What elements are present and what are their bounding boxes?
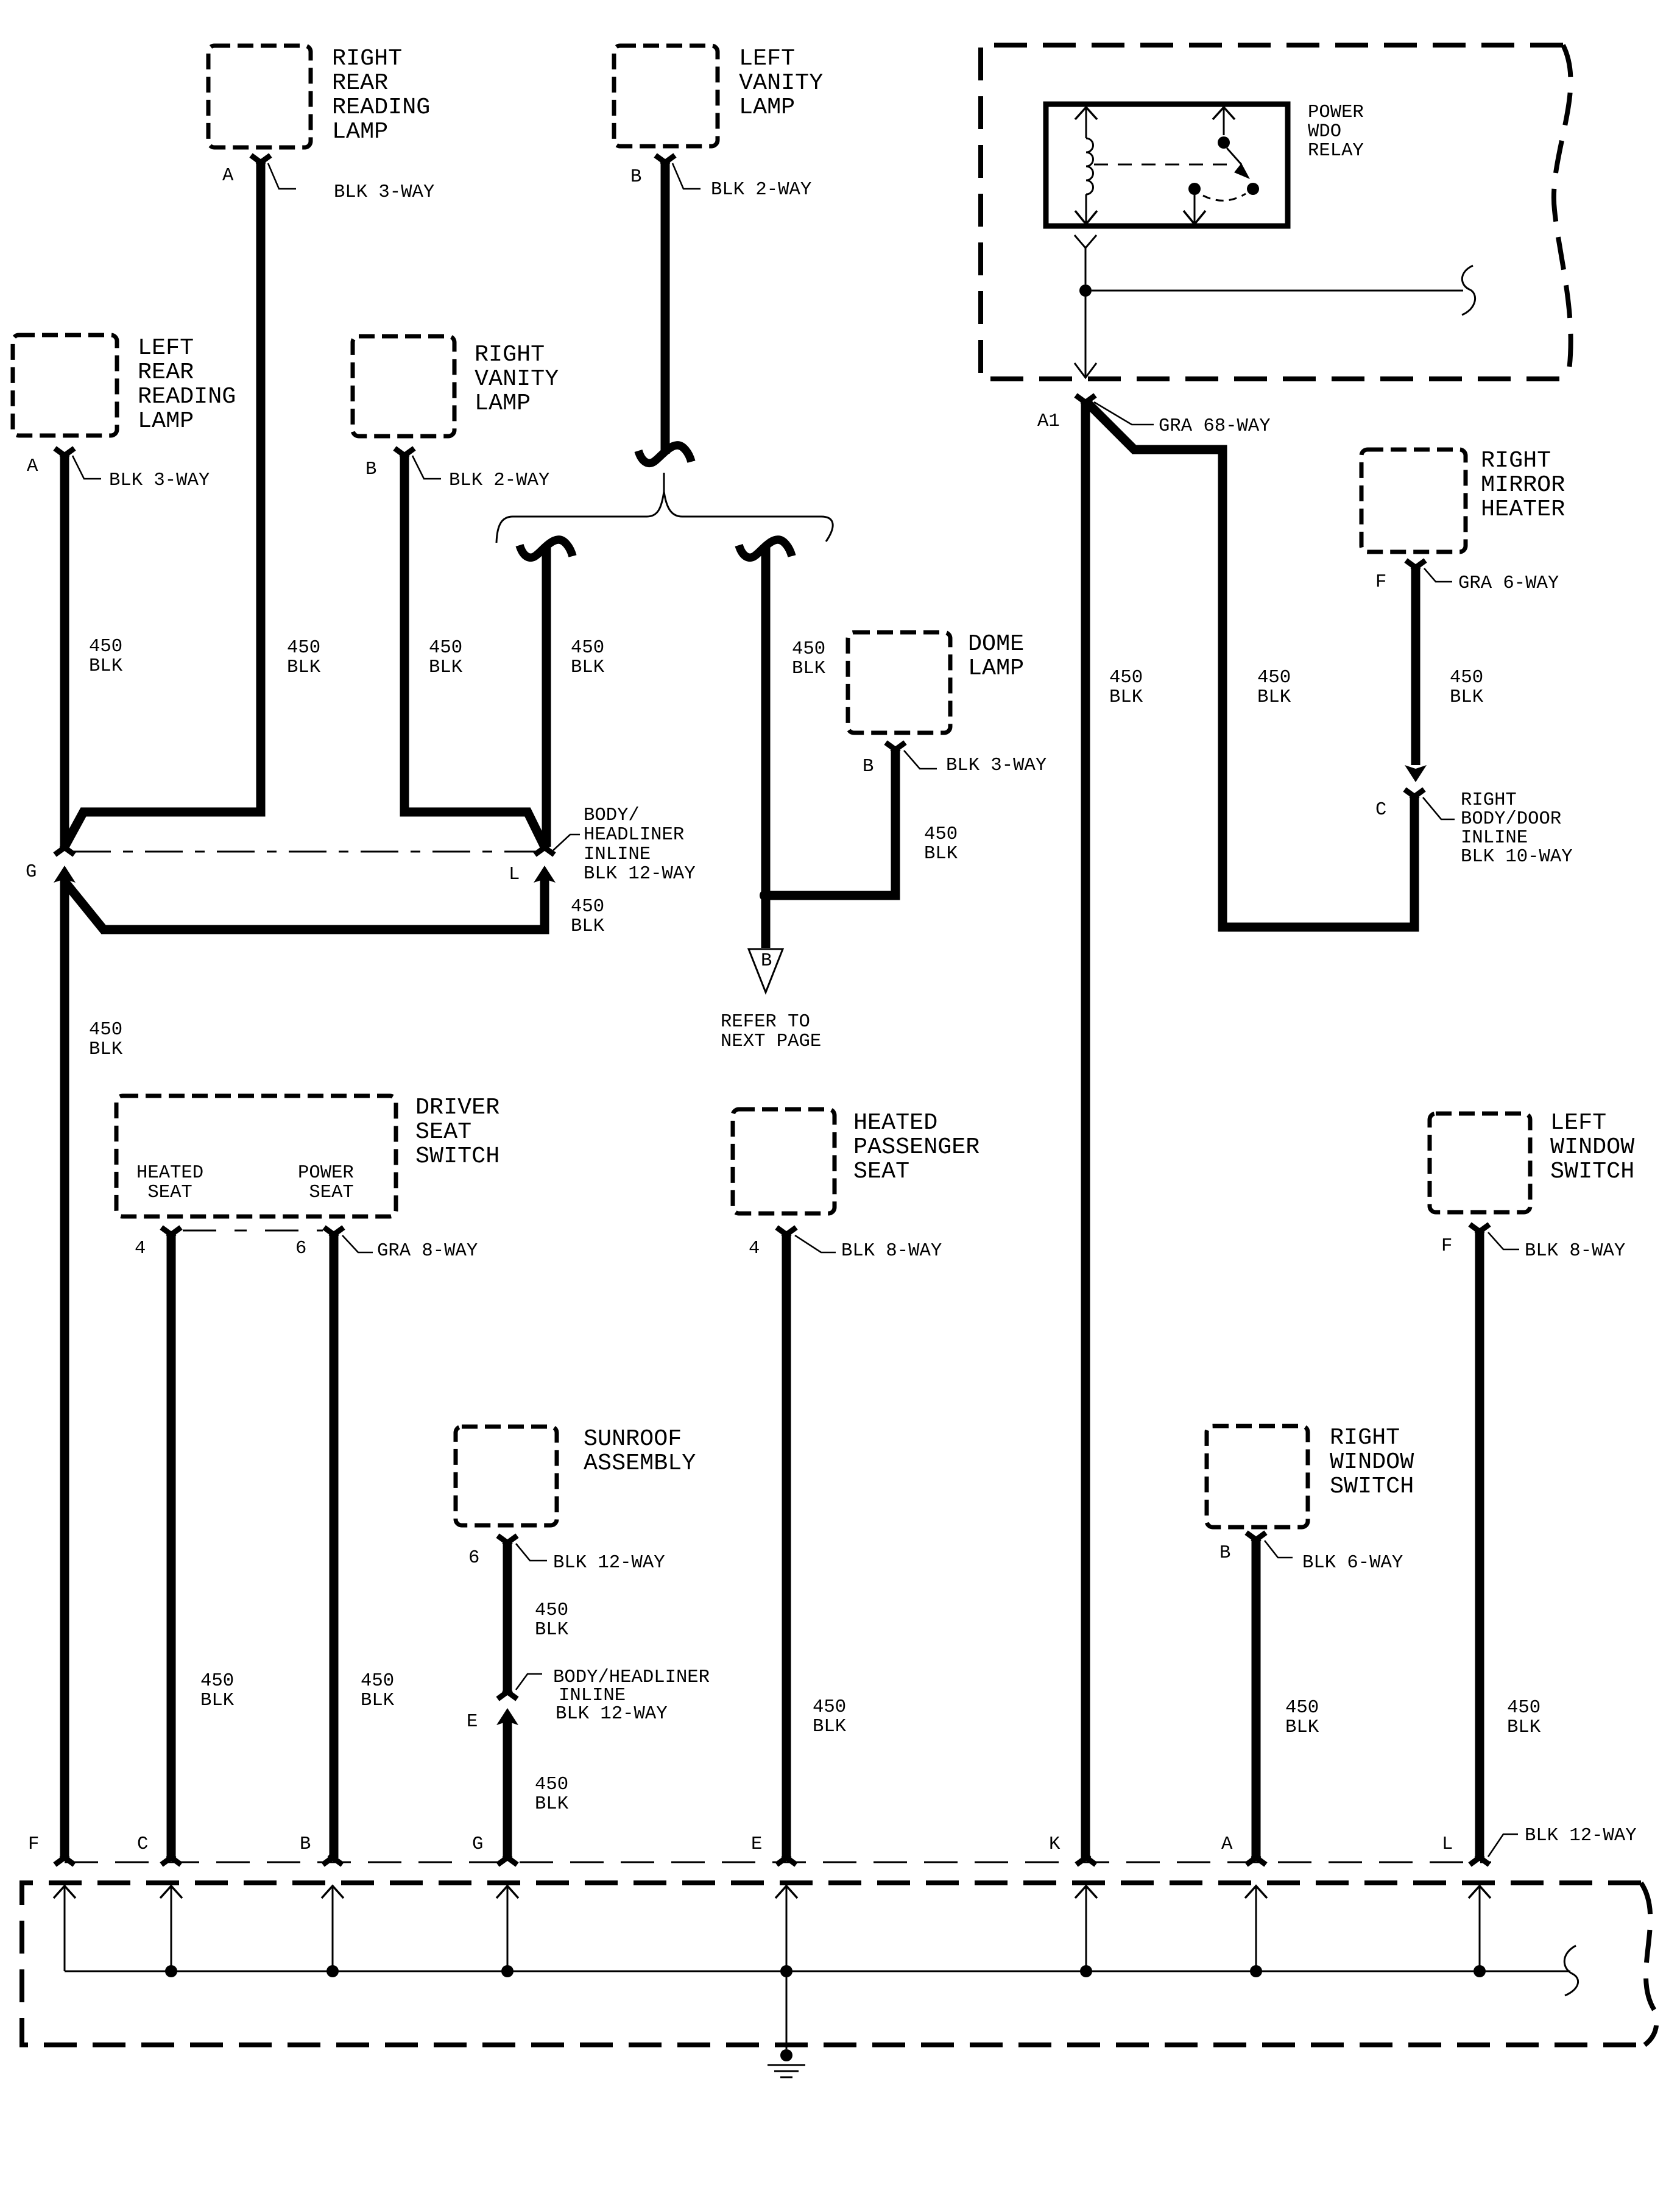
node ground bus junction at x=281 [165,1965,177,1977]
label POWER WDO RELAY [1308,102,1364,161]
svg-text:VANITY: VANITY [739,69,823,96]
wire 450 BLK from brace right branch to page reference B [761,547,771,948]
ground connector pin G mark [498,1855,517,1865]
svg-text:RIGHT: RIGHT [1461,790,1517,811]
svg-text:450: 450 [89,1020,122,1040]
svg-text:BLK: BLK [1450,687,1484,708]
wire 450 BLK from right vanity lamp to inline L [404,454,545,847]
wire 450 BLK from inline E to ground connector pin G [503,1719,512,1858]
pin letter B (dome lamp) [863,757,874,777]
inline connector G-L dashed link [73,851,536,853]
svg-text:INLINE: INLINE [1461,828,1528,849]
svg-text:BLK: BLK [361,1690,395,1711]
svg-text:6: 6 [468,1548,479,1569]
module POWER WDO RELAY dashed boundary [981,45,1571,379]
svg-text:450: 450 [535,1774,568,1795]
svg-text:BLK 12-WAY: BLK 12-WAY [553,1553,665,1573]
driver seat switch pins dashed link [183,1230,323,1232]
svg-text:DOME: DOME [968,630,1024,657]
svg-text:WINDOW: WINDOW [1550,1134,1635,1160]
label BLK 3-WAY connector (right rear reading lamp) [334,182,434,203]
svg-text:POWER: POWER [1308,102,1364,123]
label REFER TO NEXT PAGE [721,1012,821,1052]
svg-text:HEATED: HEATED [136,1163,203,1184]
pin F of LEFT WINDOW SWITCH [1470,1224,1489,1234]
svg-text:E: E [751,1834,762,1855]
pin A of RIGHT REAR READING LAMP [251,155,270,165]
svg-text:PASSENGER: PASSENGER [853,1134,979,1160]
ground drop lead [786,1971,788,2049]
leader BLK 2-WAY (right vanity lamp) [412,456,441,479]
pin 4 of DRIVER SEAT SWITCH [161,1227,181,1237]
ground bus wire [65,1971,1570,1972]
svg-text:BLK 3-WAY: BLK 3-WAY [334,182,434,203]
node ground bus junction at x=2429 [1474,1965,1486,1977]
label RIGHT MIRROR HEATER [1481,447,1565,523]
leader BLK 8-WAY (passenger seat) [795,1235,836,1252]
arrow into inline pin L lower side [534,866,556,883]
svg-text:C: C [137,1834,148,1855]
node ground bus junction at x=546 [326,1965,339,1977]
ground module lead at x=833 [507,1887,509,1971]
arrow into inline pin E lower side [496,1708,518,1725]
svg-text:BLK: BLK [535,1620,569,1640]
label 450 BLK #2 [287,638,321,678]
node splice dome lamp / next page feed [760,889,772,902]
svg-text:BLK: BLK [535,1794,569,1815]
svg-text:REAR: REAR [138,359,194,386]
label BLK 6-WAY connector [1302,1553,1403,1573]
ground connector pin letter A [1221,1834,1233,1855]
svg-text:LAMP: LAMP [332,118,388,145]
pin letter A (left rear reading lamp) [27,456,38,477]
svg-text:RIGHT: RIGHT [1481,447,1551,474]
ground module arrow at x=2429 [1469,1886,1491,1898]
svg-text:A: A [27,456,38,477]
label SUNROOF ASSEMBLY [584,1425,696,1477]
svg-text:LAMP: LAMP [475,390,531,417]
pin letter G (inline) [26,862,37,883]
relay switch fixed contact [1218,136,1230,149]
leader GRA 6-WAY [1424,568,1452,582]
label LEFT VANITY LAMP [739,45,823,121]
svg-text:BLK: BLK [89,656,123,677]
pin 4 of HEATED PASSENGER SEAT [777,1227,796,1237]
relay switch actuating arrow [1227,148,1250,179]
wire 450 BLK from left window switch to ground connector pin L [1475,1231,1484,1858]
ground connector pin letter G [472,1834,483,1855]
svg-text:SEAT: SEAT [415,1118,471,1145]
ground module arrow at x=1783 [1075,1886,1097,1898]
svg-text:BLK 3-WAY: BLK 3-WAY [946,755,1046,776]
svg-text:RIGHT: RIGHT [475,341,545,368]
inline connector pin E upper mark [498,1689,517,1699]
ground connector pin letter E [751,1834,762,1855]
svg-text:K: K [1049,1834,1061,1855]
relay switch pin arrow up [1213,107,1235,119]
svg-text:BLK: BLK [924,844,958,864]
svg-text:BLK 8-WAY: BLK 8-WAY [841,1241,942,1262]
svg-text:BLK 10-WAY: BLK 10-WAY [1461,847,1573,867]
svg-text:LEFT: LEFT [1550,1109,1606,1136]
label 450 BLK #14 [535,1600,569,1640]
page reference letter B [761,951,772,972]
pin number 4 (driver seat switch) [135,1238,146,1259]
wire 450 BLK from right rear reading lamp to inline G [65,163,261,847]
inline connector pin G upper mark [55,845,74,855]
node ground bus junction at x=1783 [1080,1965,1092,1977]
component RIGHT VANITY LAMP box [353,336,454,436]
svg-text:BLK: BLK [1109,687,1143,708]
svg-text:LEFT: LEFT [138,334,194,361]
label POWER SEAT [298,1163,354,1203]
leader BLK 3-WAY (right rear reading lamp) [268,163,296,189]
svg-text:C: C [1375,800,1386,821]
wire 450 BLK from relay pin A1 to inline C [1088,403,1414,927]
ground module arrow at x=281 [160,1886,182,1898]
pin 6 of DRIVER SEAT SWITCH [324,1227,344,1237]
label RIGHT REAR READING LAMP [332,45,430,145]
relay coil [1086,107,1093,224]
label HEATED SEAT [136,1163,203,1203]
wire 450 BLK from right mirror heater to inline C [1411,567,1421,765]
svg-text:BLK: BLK [1285,1717,1319,1738]
label RIGHT VANITY LAMP [475,341,559,417]
component SUNROOF ASSEMBLY box [456,1427,557,1525]
svg-text:LEFT: LEFT [739,45,795,72]
pin letter F (left window switch) [1441,1236,1452,1257]
pin number 6 (driver seat switch) [295,1238,306,1259]
page reference triangle B REFER TO NEXT PAGE [749,949,783,992]
label BLK 8-WAY connector (passenger seat) [841,1241,942,1262]
svg-text:MIRROR: MIRROR [1481,471,1565,498]
svg-text:VANITY: VANITY [475,365,559,392]
svg-text:HEADLINER: HEADLINER [584,825,684,846]
svg-text:BLK: BLK [571,916,605,937]
svg-text:B: B [630,167,641,188]
node ground bus junction at x=1291 [780,1965,792,1977]
svg-text:4: 4 [749,1238,760,1259]
pin 6 of SUNROOF ASSEMBLY [498,1536,517,1545]
svg-text:450: 450 [1109,668,1143,688]
relay output Y junction [1075,235,1096,284]
label BLK 12-WAY connector (sunroof) [553,1553,665,1573]
wire 450 BLK from relay pin A1 to ground connector pin K [1081,402,1090,1858]
svg-text:SWITCH: SWITCH [415,1143,499,1170]
label RIGHT BODY/DOOR INLINE BLK 10-WAY [1461,790,1573,867]
inline connector pin L upper mark [535,845,554,855]
pin letter E (inline sunroof) [467,1712,478,1732]
ground connector pin A mark [1246,1855,1266,1865]
inline connector pin C lower mark [1405,789,1424,799]
component LEFT WINDOW SWITCH box [1430,1114,1530,1212]
label RIGHT WINDOW SWITCH [1330,1424,1414,1500]
svg-text:BLK 12-WAY: BLK 12-WAY [1525,1826,1637,1846]
component LEFT VANITY LAMP box [614,46,718,146]
ground connector pin K mark [1076,1855,1096,1865]
ground connector pin letter C [137,1834,148,1855]
pin letter L (inline) [509,864,520,885]
label 450 BLK #6 [1109,668,1143,708]
pin number 6 (sunroof) [468,1548,479,1569]
svg-text:DRIVER: DRIVER [415,1094,499,1121]
svg-text:RIGHT: RIGHT [332,45,402,72]
relay U1 POWER WDO RELAY body [1046,104,1288,226]
svg-text:450: 450 [813,1697,846,1718]
svg-text:450: 450 [429,638,462,658]
ground module lead at x=2429 [1479,1887,1481,1971]
brace linking vanity lamp splice to two branches [496,473,833,543]
leader GRA 68-WAY [1094,402,1154,425]
svg-text:NEXT PAGE: NEXT PAGE [721,1031,821,1052]
wire-break squiggle at relay feed end [1462,266,1475,315]
svg-text:SEAT: SEAT [136,1182,192,1203]
svg-text:BLK 8-WAY: BLK 8-WAY [1525,1241,1625,1262]
label 450 BLK #17 [1285,1698,1319,1738]
svg-text:F: F [1441,1236,1452,1257]
svg-text:450: 450 [1450,668,1483,688]
svg-text:A: A [222,166,234,186]
svg-text:SWITCH: SWITCH [1330,1473,1414,1500]
svg-text:BLK: BLK [792,658,826,679]
wire internal feed to right (continues) [1092,290,1463,292]
ground module lead at x=2062 [1255,1887,1257,1971]
svg-text:450: 450 [571,897,604,917]
label HEATED PASSENGER SEAT [853,1109,979,1185]
wire 450 BLK jumper between inline G and inline L lower side [65,879,545,930]
label 450 BLK #10 [571,897,605,937]
ground connector pin F mark [55,1855,74,1865]
node relay output junction [1079,284,1092,297]
relay switch common line [1223,107,1225,135]
leader BLK 6-WAY [1265,1541,1293,1558]
wire-continuation curl (right branch under brace) [739,540,792,557]
svg-text:HEATER: HEATER [1481,496,1565,523]
svg-text:450: 450 [1285,1698,1319,1718]
pin B of RIGHT VANITY LAMP [395,448,414,458]
wire 450 BLK from brace left branch to inline L [542,547,551,847]
svg-text:BODY/: BODY/ [584,805,640,826]
ground symbol [768,2065,805,2077]
svg-text:INLINE: INLINE [584,844,651,865]
leader GRA 8-WAY [342,1235,373,1252]
ground connector pin L mark [1470,1855,1489,1865]
component DRIVER SEAT SWITCH box [116,1096,396,1216]
arrow into inline pin G lower side [54,866,76,883]
svg-text:BLK: BLK [1507,1717,1541,1738]
leader BLK 8-WAY (left window switch) [1488,1232,1519,1249]
svg-text:B: B [863,757,874,777]
svg-text:E: E [467,1712,478,1732]
svg-text:GRA 68-WAY: GRA 68-WAY [1159,416,1271,437]
label BLK 2-WAY connector (right vanity lamp) [449,470,549,491]
label BLK 2-WAY connector (left vanity lamp) [711,180,811,200]
svg-text:BLK: BLK [200,1690,235,1711]
svg-text:BLK 2-WAY: BLK 2-WAY [449,470,549,491]
svg-text:REFER TO: REFER TO [721,1012,810,1033]
svg-text:REAR: REAR [332,69,388,96]
arrow into inline C upper side [1405,765,1427,782]
svg-text:450: 450 [287,638,320,658]
svg-text:450: 450 [1507,1698,1541,1718]
wire-continuation curl (left vanity lamp) [638,445,691,463]
svg-text:450: 450 [1257,668,1291,688]
relay coil pin arrow up [1075,107,1097,119]
label BODY/HEADLINER INLINE BLK 12-WAY (sunroof) [553,1667,710,1725]
node ground bus junction at x=2062 [1250,1965,1262,1977]
svg-text:SUNROOF: SUNROOF [584,1425,682,1452]
node ground point [780,2049,792,2061]
svg-text:BLK 12-WAY: BLK 12-WAY [584,864,696,884]
svg-text:BLK: BLK [287,657,321,678]
svg-text:BLK: BLK [429,657,463,678]
label 450 BLK #11 [89,1020,123,1060]
svg-text:BODY/DOOR: BODY/DOOR [1461,809,1561,830]
ground connector pin letter L [1442,1834,1453,1855]
svg-text:B: B [300,1834,311,1855]
relay switch dashed travel arc [1203,194,1246,200]
pin letter B (right vanity lamp) [365,459,376,480]
pin letter B (left vanity lamp) [630,167,641,188]
svg-text:450: 450 [361,1671,394,1692]
relay coil pin arrow down [1075,211,1097,224]
svg-text:LAMP: LAMP [968,655,1024,682]
label BLK 3-WAY connector (dome lamp) [946,755,1046,776]
svg-text:WINDOW: WINDOW [1330,1449,1414,1475]
label 450 BLK #7 [1257,668,1291,708]
label 450 BLK #3 [429,638,463,678]
svg-text:BLK 12-WAY: BLK 12-WAY [556,1704,668,1725]
ground module lead at x=546 [332,1887,334,1971]
svg-text:LAMP: LAMP [138,408,194,434]
label DRIVER SEAT SWITCH [415,1094,499,1170]
svg-text:SEAT: SEAT [853,1158,909,1185]
ground module arrow at x=106 [54,1886,76,1898]
label DOME LAMP [968,630,1024,682]
arrow at module edge A1 [1075,363,1096,378]
leader BLK 3-WAY (dome lamp) [904,750,937,769]
ground connector pin C mark [161,1855,181,1865]
svg-text:RIGHT: RIGHT [1330,1424,1400,1451]
pin B of LEFT VANITY LAMP [655,155,675,165]
pin letter C (inline) [1375,800,1386,821]
label 450 BLK #12 [200,1671,235,1711]
label GRA 68-WAY connector [1159,416,1271,437]
svg-text:INLINE: INLINE [559,1686,626,1706]
ground module arrow at x=2062 [1245,1886,1267,1898]
label 450 BLK #4 [571,638,605,678]
ground module arrow at x=833 [496,1886,518,1898]
label 450 BLK #5 [792,639,826,679]
svg-text:WDO: WDO [1308,122,1341,143]
ground module lead at x=1291 [786,1887,788,1971]
component RIGHT MIRROR HEATER box [1361,450,1466,552]
wire 450 BLK from right window switch to ground connector pin A [1252,1539,1261,1858]
label BLK 3-WAY connector (left rear reading lamp) [109,470,210,491]
svg-text:BLK 3-WAY: BLK 3-WAY [109,470,210,491]
ground distribution module dashed boundary [22,1883,1656,2045]
svg-text:READING: READING [332,94,430,121]
wire 450 BLK from left rear reading lamp to inline G [60,456,69,848]
relay switch output line [1194,195,1196,224]
svg-text:450: 450 [535,1600,568,1621]
leader BLK 12-WAY (ground connector) [1488,1834,1518,1857]
leader RIGHT BODY/DOOR INLINE [1423,797,1455,819]
wire-break squiggle at ground bus end [1564,1946,1578,1996]
svg-text:SEAT: SEAT [298,1182,354,1203]
label BLK 12-WAY connector (ground) [1525,1826,1637,1846]
ground connector pin letter F [28,1834,39,1855]
relay switch output contact [1188,183,1201,195]
svg-text:RELAY: RELAY [1308,141,1364,161]
svg-text:BLK: BLK [571,657,605,678]
label 450 BLK #18 [1507,1698,1541,1738]
leader BLK 3-WAY (left rear reading lamp) [72,456,101,479]
leader BLK 12-WAY (sunroof) [516,1544,547,1561]
svg-text:G: G [472,1834,483,1855]
label 450 BLK #1 [89,637,123,677]
svg-text:BLK 2-WAY: BLK 2-WAY [711,180,811,200]
wire-continuation curl (left branch under brace) [520,540,573,557]
leader BODY/HEADLINER INLINE (sunroof) [516,1674,542,1690]
pin letter B (right window switch) [1219,1543,1230,1564]
label 450 BLK #15 [535,1774,569,1815]
svg-text:HEATED: HEATED [853,1109,937,1136]
label 450 BLK #13 [361,1671,395,1711]
label LEFT WINDOW SWITCH [1550,1109,1635,1185]
ground connector pin B mark [323,1855,342,1865]
label LEFT REAR READING LAMP [138,334,236,434]
component HEATED PASSENGER SEAT box [733,1109,835,1213]
pin F of RIGHT MIRROR HEATER [1406,560,1425,570]
svg-text:450: 450 [571,638,604,658]
wire 450 BLK from driver seat power to ground connector pin B [330,1234,339,1858]
pin letter A1 [1037,411,1060,432]
component LEFT REAR READING LAMP box [13,335,117,436]
svg-text:A1: A1 [1037,411,1060,432]
svg-text:BLK 6-WAY: BLK 6-WAY [1302,1553,1403,1573]
relay coil-to-switch dashed link [1094,164,1235,166]
wire 450 BLK from heated passenger seat to ground connector pin E [782,1234,791,1858]
label BODY/HEADLINER INLINE BLK 12-WAY [584,805,696,884]
ground module lead at x=1783 [1085,1887,1087,1971]
pin number 4 (heated passenger seat) [749,1238,760,1259]
svg-text:BLK: BLK [89,1039,123,1060]
svg-text:450: 450 [924,824,958,845]
svg-text:ASSEMBLY: ASSEMBLY [584,1450,696,1477]
svg-text:READING: READING [138,383,236,410]
svg-text:450: 450 [792,639,825,660]
label 450 BLK #8 [1450,668,1484,708]
pin letter A (right rear reading lamp) [222,166,234,186]
svg-text:BLK: BLK [813,1717,847,1737]
svg-text:4: 4 [135,1238,146,1259]
pin A of LEFT REAR READING LAMP [55,448,74,458]
svg-text:450: 450 [200,1671,234,1692]
svg-text:A: A [1221,1834,1233,1855]
svg-text:F: F [28,1834,39,1855]
pin letter F (right mirror heater) [1375,572,1386,593]
label 450 BLK #16 [813,1697,847,1737]
relay switch output arrow down [1184,211,1205,224]
svg-text:GRA 6-WAY: GRA 6-WAY [1458,573,1559,594]
svg-text:G: G [26,862,37,883]
svg-text:L: L [1442,1834,1453,1855]
svg-text:L: L [509,864,520,885]
svg-text:6: 6 [295,1238,306,1259]
svg-text:LAMP: LAMP [739,94,795,121]
node ground bus junction at x=833 [501,1965,514,1977]
